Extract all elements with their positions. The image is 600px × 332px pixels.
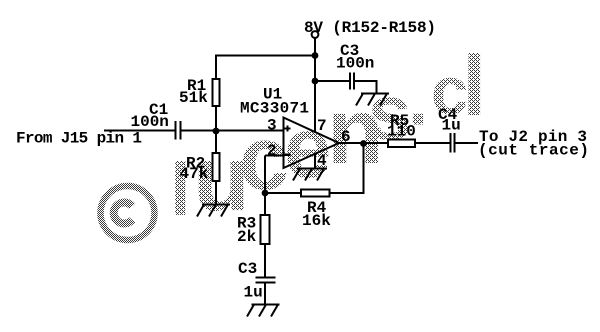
resistor R3 [261, 215, 270, 244]
wire feedback node to R3 [264, 193, 266, 215]
svg-text:51k: 51k [179, 89, 208, 107]
ground under R2 [197, 205, 230, 217]
wire top rail R1 to 8V [216, 56, 315, 79]
svg-text:47k: 47k [180, 165, 209, 183]
wire R5 to C4 [416, 142, 450, 144]
svg-text:100n: 100n [131, 113, 169, 131]
wire C3 to ground drop [355, 81, 377, 94]
svg-text:3: 3 [267, 117, 277, 135]
svg-text:7: 7 [317, 117, 327, 135]
svg-text:1u: 1u [442, 117, 461, 135]
wire R2 bottom to ground [215, 182, 217, 205]
svg-text:4: 4 [317, 152, 327, 170]
svg-text:2: 2 [267, 142, 277, 160]
node rail junction to C3 [312, 78, 319, 85]
svg-text:16k: 16k [302, 212, 331, 230]
resistor R2 [213, 153, 220, 181]
wire pin 4 to ground [314, 154, 316, 169]
svg-text:MC33071: MC33071 [240, 100, 309, 118]
svg-text:110: 110 [387, 123, 416, 141]
wire rail to C3 [315, 80, 349, 82]
ground under C3 bottom [247, 305, 280, 317]
node rail junction to R1 [312, 52, 319, 59]
watermark copyright symbol [101, 186, 155, 240]
wire pin 2 vertical to feedback node [264, 156, 266, 194]
svg-text:From J15 pin 1: From J15 pin 1 [16, 130, 142, 148]
node input junction [213, 128, 220, 135]
wire input from J15 to C1 [104, 130, 175, 132]
svg-text:2k: 2k [237, 228, 257, 246]
wire 8V vertical rail to op-amp pin 7 [314, 38, 316, 132]
op-amp minus marker [285, 154, 291, 157]
wire pin 2 horizontal [265, 155, 283, 157]
svg-text:l: l [463, 39, 487, 134]
wire R4 to feedback node [265, 192, 300, 194]
wire feedback drop from output [331, 143, 364, 193]
capacitor C3 (decoupling) [349, 73, 355, 90]
resistor R1 [213, 79, 220, 106]
capacitor C3 (bottom) [256, 277, 276, 284]
svg-text:8V (R152-R158): 8V (R152-R158) [304, 19, 436, 37]
wire C4 to J2 [456, 142, 479, 144]
capacitor C4 [450, 133, 456, 153]
op-amp plus marker [285, 126, 291, 132]
svg-text:6: 6 [341, 128, 351, 146]
ground under pin 4 [293, 169, 327, 181]
op-amp U1 triangle [284, 118, 340, 169]
resistor R4 [301, 190, 330, 197]
ground under C3 decoupling [356, 94, 389, 106]
resistor R5 [388, 140, 415, 148]
wire C3 bottom to ground [264, 283, 266, 305]
svg-text:C3: C3 [238, 260, 257, 278]
wire R1 bottom through junction to R2 top [215, 107, 217, 152]
node feedback junction [262, 190, 269, 197]
wire R3 to C3 bottom [264, 244, 266, 277]
wire output pin 6 [339, 142, 387, 144]
8V supply terminal [312, 31, 319, 38]
svg-text:(cut trace): (cut trace) [478, 142, 589, 160]
node output junction [360, 140, 367, 147]
svg-text:100n: 100n [336, 55, 374, 73]
capacitor C1 [175, 121, 182, 140]
svg-text:1u: 1u [244, 284, 263, 302]
wire C1 to pin 3 [181, 130, 283, 132]
